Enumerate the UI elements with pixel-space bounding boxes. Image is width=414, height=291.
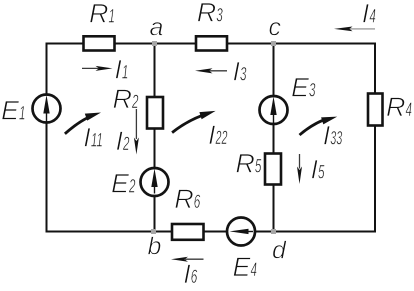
node d: [271, 229, 276, 234]
source E2: [141, 168, 169, 196]
loop arrow I22: [172, 111, 216, 133]
current arrow I6: [171, 257, 204, 262]
source E1: [33, 95, 61, 123]
wire R6 to E4: [204, 231, 228, 233]
resistor R5: [265, 154, 281, 185]
svg-text:b: b: [148, 233, 162, 261]
node b: [151, 229, 156, 234]
wire R1 to node a: [115, 43, 155, 45]
wire left side upper (corner to E1): [46, 43, 48, 95]
current arrow I4: [334, 27, 375, 32]
wire E4 to node d: [255, 231, 274, 233]
svg-text:d: d: [272, 236, 287, 264]
wire node b to R6: [154, 231, 173, 233]
loop arrow I11: [65, 113, 101, 134]
current arrow I5: [297, 154, 302, 184]
wire right side upper (corner to R4): [374, 43, 376, 94]
source E3: [260, 96, 288, 124]
current arrow I1: [82, 66, 113, 71]
resistor R1: [84, 36, 115, 50]
svg-text:a: a: [150, 14, 164, 42]
wire node a to R3: [155, 43, 197, 45]
wire node d to bottom-right corner: [274, 231, 377, 233]
resistor R2: [147, 97, 163, 129]
node a: [152, 41, 157, 46]
wire node c to top-right corner: [274, 43, 377, 45]
wire R5 to node d: [273, 185, 275, 232]
resistor R6: [172, 224, 204, 240]
wire E3 to R5: [273, 124, 275, 154]
wire top-left segment (corner to R1): [47, 43, 84, 45]
wire branch a: node a to R2: [154, 44, 156, 98]
wire R3 to node c: [227, 43, 274, 45]
wire R2 to E2: [154, 129, 156, 169]
resistor R4: [368, 94, 383, 126]
node c: [271, 41, 276, 46]
wire right side lower (R4 to corner): [374, 126, 376, 233]
source E4: [227, 218, 255, 246]
current arrow I2: [134, 109, 139, 155]
current arrow I3: [195, 68, 227, 73]
wire bottom-left (corner to node b): [47, 231, 154, 233]
wire E2 to node b: [154, 196, 156, 232]
svg-text:c: c: [269, 13, 282, 41]
loop arrow I33: [300, 117, 338, 135]
resistor R3: [196, 36, 227, 50]
wire branch c: node c to E3: [273, 44, 275, 97]
wire left side lower (E1 to corner): [46, 123, 48, 233]
